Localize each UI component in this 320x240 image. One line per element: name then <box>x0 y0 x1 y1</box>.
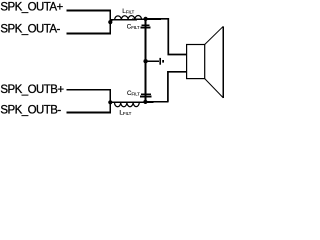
wire: OUTA tie bar <box>109 10 111 35</box>
node: OUTB junction <box>108 100 112 104</box>
capacitor C_FILT (channel A) lead <box>145 19 147 61</box>
speaker body <box>187 45 205 79</box>
svg-text:CFILT: CFILT <box>127 90 140 97</box>
inductor L_FILT (channel A) <box>115 16 142 20</box>
terminal bar <box>159 58 161 65</box>
svg-text:SPK_OUTA+: SPK_OUTA+ <box>0 2 63 14</box>
speaker cone diagonal bottom <box>205 79 224 98</box>
wire: midpoint stub <box>146 60 160 62</box>
inductor L_FILT (channel B) <box>115 102 140 107</box>
node: cap A junction <box>144 17 148 21</box>
wire: OUTB node to filter <box>110 101 168 104</box>
wire: channel A to speaker <box>146 19 187 55</box>
svg-text:SPK_OUTB+: SPK_OUTB+ <box>0 84 64 96</box>
capacitor C_FILT (channel B) plates <box>141 93 151 95</box>
wire SPK_OUTA+ <box>66 10 111 12</box>
wire: OUTA node to filter <box>110 19 168 20</box>
node: filter midpoint <box>143 59 147 63</box>
speaker cone mouth <box>222 26 224 98</box>
svg-text:LFILT: LFILT <box>119 109 131 116</box>
wire: channel B to speaker <box>168 72 187 102</box>
wire: OUTB tie bar <box>109 89 111 114</box>
node: OUTA junction <box>108 20 112 24</box>
wire SPK_OUTB- <box>66 112 111 114</box>
capacitor C_FILT (channel A) plates <box>142 24 150 26</box>
svg-text:CFILT: CFILT <box>127 23 140 30</box>
node: cap B junction <box>143 100 147 104</box>
svg-text:SPK_OUTB-: SPK_OUTB- <box>0 104 61 116</box>
speaker cone diagonal top <box>205 26 224 44</box>
wire: cap rail midpoint to cap B <box>145 61 147 102</box>
svg-text:SPK_OUTA-: SPK_OUTA- <box>0 24 60 36</box>
wire SPK_OUTA- <box>66 32 111 34</box>
svg-text:LFILT: LFILT <box>122 8 134 15</box>
wire SPK_OUTB+ <box>66 89 111 91</box>
terminal dot <box>162 60 164 63</box>
